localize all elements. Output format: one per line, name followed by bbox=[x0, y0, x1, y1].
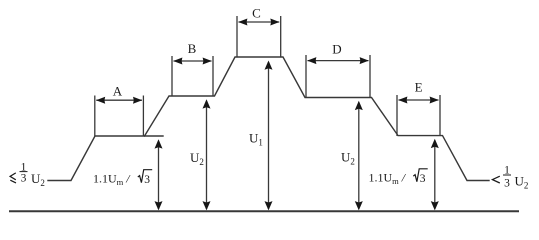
svg-text:D: D bbox=[332, 42, 341, 57]
svg-text:3: 3 bbox=[420, 173, 426, 185]
svg-text:1.1Um /: 1.1Um / bbox=[369, 171, 407, 187]
svg-text:3: 3 bbox=[21, 173, 27, 185]
svg-text:C: C bbox=[252, 6, 261, 21]
svg-text:3: 3 bbox=[144, 174, 150, 186]
svg-text:U2: U2 bbox=[341, 149, 355, 166]
svg-text:A: A bbox=[113, 84, 123, 99]
svg-text:U2: U2 bbox=[31, 171, 45, 188]
svg-text:B: B bbox=[188, 41, 197, 56]
svg-text:U1: U1 bbox=[249, 131, 263, 148]
svg-text:E: E bbox=[415, 79, 423, 94]
svg-text:3: 3 bbox=[504, 178, 510, 190]
svg-text:1.1Um /: 1.1Um / bbox=[93, 172, 131, 188]
svg-text:U2: U2 bbox=[515, 174, 529, 191]
svg-text:U2: U2 bbox=[190, 150, 204, 167]
